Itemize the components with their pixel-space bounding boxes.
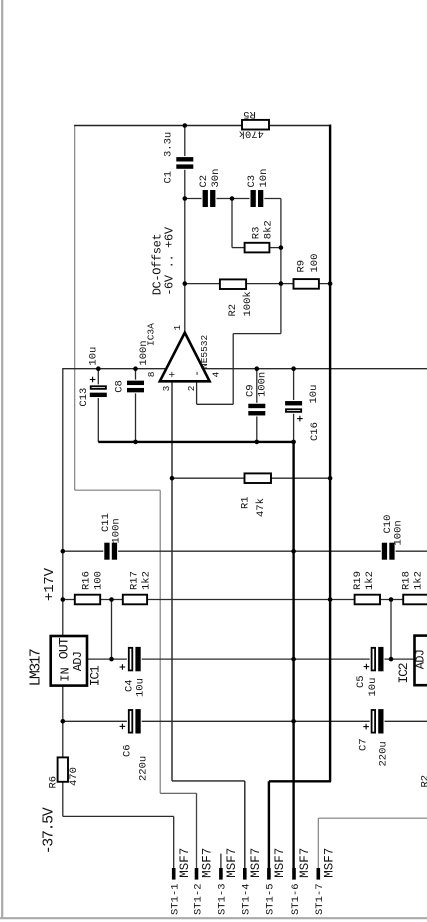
svg-text:-37.5V: -37.5V: [41, 807, 58, 854]
svg-text:100: 100: [92, 571, 104, 590]
svg-text:-6V .. +6V: -6V .. +6V: [163, 226, 177, 296]
svg-text:8: 8: [146, 371, 157, 377]
svg-text:30n: 30n: [210, 169, 222, 188]
svg-text:R9: R9: [296, 260, 308, 273]
svg-text:ST1-3: ST1-3: [217, 883, 229, 915]
svg-text:1k2: 1k2: [140, 571, 152, 590]
svg-text:IC2: IC2: [396, 663, 411, 683]
svg-text:ST1-5: ST1-5: [265, 883, 277, 915]
svg-text:MSF7: MSF7: [273, 848, 287, 878]
svg-text:10u: 10u: [308, 385, 320, 404]
svg-text:MSF7: MSF7: [323, 848, 337, 878]
svg-text:MSF7: MSF7: [225, 848, 239, 878]
svg-text:R19: R19: [352, 571, 364, 590]
svg-text:10u: 10u: [88, 347, 100, 366]
svg-text:+: +: [167, 371, 179, 378]
svg-text:MSF7: MSF7: [298, 848, 312, 878]
svg-text:1k2: 1k2: [364, 571, 376, 590]
svg-text:ST1-4: ST1-4: [241, 883, 253, 915]
svg-text:3: 3: [161, 385, 172, 391]
svg-text:100: 100: [309, 254, 321, 273]
svg-text:C6: C6: [121, 744, 133, 757]
svg-text:OUT: OUT: [56, 637, 71, 659]
svg-text:NE5532: NE5532: [199, 334, 210, 369]
svg-text:R17: R17: [128, 571, 140, 590]
svg-text:10n: 10n: [258, 169, 270, 188]
svg-text:ST1-7: ST1-7: [314, 883, 326, 915]
svg-text:LM317: LM317: [27, 649, 44, 686]
svg-text:MSF7: MSF7: [201, 848, 215, 878]
svg-text:2: 2: [186, 385, 197, 391]
svg-text:R6: R6: [48, 776, 60, 789]
svg-text:MSF7: MSF7: [249, 848, 263, 878]
svg-text:C16: C16: [309, 422, 321, 441]
svg-text:220u: 220u: [138, 756, 150, 781]
svg-text:ST1-6: ST1-6: [290, 883, 302, 915]
svg-text:R2: R2: [227, 304, 239, 317]
svg-text:220u: 220u: [377, 741, 389, 766]
svg-text:1k2: 1k2: [413, 571, 425, 590]
svg-text:R18: R18: [401, 571, 413, 590]
svg-text:100n: 100n: [393, 520, 405, 545]
svg-text:100n: 100n: [257, 372, 269, 397]
svg-text:C7: C7: [358, 738, 370, 751]
svg-text:100n: 100n: [110, 518, 122, 543]
svg-text:3.3u: 3.3u: [163, 132, 175, 157]
svg-text:R16: R16: [80, 571, 92, 590]
svg-text:IN: IN: [58, 667, 72, 681]
svg-text:+17V: +17V: [42, 567, 58, 601]
svg-text:ADJ: ADJ: [71, 652, 85, 672]
svg-text:C9: C9: [245, 384, 257, 397]
svg-text:1: 1: [172, 325, 183, 331]
svg-text:C8: C8: [113, 380, 125, 393]
svg-text:C13: C13: [78, 388, 90, 407]
svg-text:C2: C2: [198, 175, 210, 188]
svg-text:10u: 10u: [367, 678, 379, 697]
svg-text:ADJ: ADJ: [414, 650, 427, 670]
svg-text:MSF7: MSF7: [178, 848, 192, 878]
svg-text:R1: R1: [239, 496, 251, 509]
svg-text:100k: 100k: [242, 291, 254, 316]
svg-text:-: -: [192, 370, 204, 377]
svg-text:47k: 47k: [255, 498, 267, 517]
svg-text:470k: 470k: [239, 127, 264, 139]
svg-text:C5: C5: [355, 675, 367, 688]
svg-text:C1: C1: [163, 171, 175, 184]
svg-text:8k2: 8k2: [263, 220, 275, 239]
svg-text:100n: 100n: [138, 340, 150, 365]
svg-text:4: 4: [211, 372, 222, 378]
svg-text:10u: 10u: [135, 678, 147, 697]
svg-text:ST1-2: ST1-2: [192, 883, 204, 915]
svg-text:R5: R5: [243, 108, 256, 120]
svg-text:R2: R2: [420, 775, 427, 788]
svg-text:ST1-1: ST1-1: [170, 883, 182, 915]
svg-text:C3: C3: [246, 175, 258, 188]
svg-text:IC1: IC1: [88, 665, 103, 686]
svg-text:R3: R3: [251, 227, 263, 240]
svg-text:470: 470: [68, 767, 80, 786]
